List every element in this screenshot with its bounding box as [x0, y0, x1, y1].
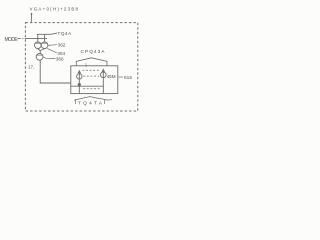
- tick left: [75, 100, 77, 104]
- transistor 362: [35, 42, 42, 49]
- svg-text:VGA+0(H)+23B8: VGA+0(H)+23B8: [30, 6, 79, 11]
- brace below box: [74, 97, 108, 101]
- transistor 304: [41, 42, 48, 49]
- inner rail: [71, 86, 104, 93]
- svg-text:MODE: MODE: [5, 37, 19, 43]
- junction wires: [38, 49, 45, 54]
- mirror box: [71, 66, 118, 94]
- svg-text:362: 362: [58, 43, 66, 48]
- brace above box: [76, 58, 107, 66]
- svg-text:304: 304: [57, 51, 65, 56]
- wire to box: [40, 60, 70, 83]
- dashed link low: [83, 88, 101, 90]
- supply rail: [37, 33, 57, 42]
- stub node: [85, 63, 87, 68]
- current source right: [102, 70, 104, 94]
- svg-text:CPQ43A: CPQ43A: [81, 49, 106, 55]
- svg-text:45M: 45M: [107, 74, 116, 79]
- dashed link top: [82, 69, 100, 71]
- dashed link mid: [83, 75, 99, 77]
- svg-text:TQ4A: TQ4A: [58, 31, 73, 36]
- dashed box: [25, 23, 137, 111]
- leader 366: [43, 57, 55, 59]
- MODE wire: [18, 38, 48, 40]
- arrow tick: [108, 99, 112, 102]
- junction dot: [78, 83, 81, 86]
- leader 362: [48, 44, 57, 47]
- wire label stub: [30, 14, 32, 23]
- transistor 366: [36, 53, 43, 60]
- tick right: [104, 100, 106, 104]
- current source left: [78, 71, 80, 85]
- svg-text:17,: 17,: [28, 64, 34, 69]
- leader 615: [118, 76, 123, 78]
- svg-text:TQ4TA: TQ4TA: [78, 100, 103, 105]
- svg-text:615: 615: [124, 75, 132, 81]
- leader 304: [47, 48, 57, 53]
- svg-text:366: 366: [56, 56, 64, 61]
